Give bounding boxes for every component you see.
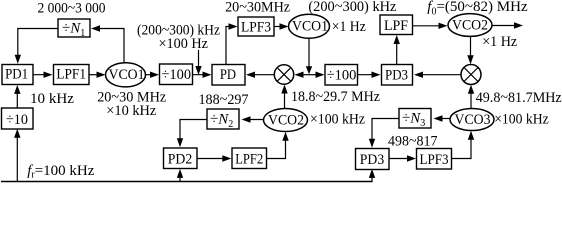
svg-text:×100 kHz: ×100 kHz <box>310 112 365 128</box>
svg-text:×100 kHz: ×100 kHz <box>494 112 549 128</box>
wire LPF1 to VCO1 <box>89 72 106 78</box>
svg-text:LPF2: LPF2 <box>235 152 263 168</box>
oscillator VCO3 <box>450 109 494 131</box>
wire PD1 to LPF1 <box>33 72 53 78</box>
block PD3 main <box>382 65 413 86</box>
block LPF2 <box>232 148 267 169</box>
svg-text:(200~300) kHz: (200~300) kHz <box>308 0 396 15</box>
wire PD2 to LPF2 <box>197 155 231 161</box>
wire junction to divider 100 second <box>309 72 325 78</box>
wire VCO3 up to mixer2 <box>468 85 474 109</box>
reference rail <box>1 181 373 183</box>
wire VCO2 output <box>492 22 523 28</box>
svg-text:10 kHz: 10 kHz <box>30 91 74 107</box>
svg-text:498~817: 498~817 <box>388 133 438 149</box>
svg-text:VCO2: VCO2 <box>268 113 304 129</box>
divider N2 <box>207 109 239 130</box>
wire VCO1 to divider 100 <box>146 72 160 78</box>
svg-text:÷100: ÷100 <box>327 67 357 83</box>
mixer 1 <box>274 65 293 84</box>
wire PD3b to LPF3b <box>389 155 416 161</box>
wire LPF3 to VCO1 top <box>274 23 289 29</box>
wire divider N1 to PD1 <box>15 29 58 64</box>
divider 100 first <box>160 64 193 85</box>
block LPF <box>380 15 413 35</box>
divider 10 <box>2 108 34 129</box>
svg-text:PD1: PD1 <box>5 67 28 83</box>
svg-text:÷100: ÷100 <box>162 67 192 83</box>
wire VCO2b up to mixer1 <box>281 85 287 109</box>
wire LPF3b to VCO3 <box>452 131 475 159</box>
block PD <box>212 65 245 86</box>
svg-text:×1 Hz: ×1 Hz <box>482 34 517 50</box>
oscillator VCO1 <box>106 63 146 87</box>
svg-text:2 000~3 000: 2 000~3 000 <box>38 0 106 16</box>
wire divider 100 to PD <box>193 72 212 78</box>
wire rail to PD2 <box>177 169 183 182</box>
wire LPF to VCO2 top <box>413 23 448 29</box>
divider N3 <box>399 109 431 130</box>
wire divider100 to PD3 <box>358 72 381 78</box>
svg-text:×1 Hz: ×1 Hz <box>332 19 366 35</box>
svg-text:PD2: PD2 <box>168 152 193 168</box>
svg-text:×100 Hz: ×100 Hz <box>159 36 209 52</box>
wire PD3 up to LPF <box>394 35 400 64</box>
mixer 2 <box>461 65 481 85</box>
block PD2 <box>164 148 198 169</box>
block PD3 bottom <box>356 149 390 170</box>
svg-text:PD: PD <box>220 67 236 83</box>
wire VCO1 top down junction <box>306 38 312 74</box>
wire divider 10 to PD1 <box>14 85 20 108</box>
svg-text:18.8~29.7 MHz: 18.8~29.7 MHz <box>291 89 380 105</box>
svg-text:VCO3: VCO3 <box>455 112 491 128</box>
svg-text:LPF1: LPF1 <box>56 67 86 83</box>
svg-text:188~297: 188~297 <box>199 92 249 108</box>
block LPF1 <box>54 65 90 85</box>
wire LPF2 to VCO2b <box>267 132 289 159</box>
svg-text:VCO1: VCO1 <box>292 18 328 34</box>
wire VCO2b to divider N2 <box>242 116 264 122</box>
svg-text:×10 kHz: ×10 kHz <box>106 103 156 119</box>
wire mixer1 to PD <box>246 72 274 78</box>
wire junction to mixer1 <box>295 72 310 78</box>
wire rail to PD3b <box>369 169 375 182</box>
block PD1 <box>2 65 33 85</box>
oscillator VCO2 bottom <box>264 109 308 132</box>
wire divider N2 to PD2 <box>177 120 207 148</box>
wire divider N3 to PD3b <box>369 119 399 148</box>
svg-text:20~30MHz: 20~30MHz <box>225 0 290 16</box>
svg-text:VCO2: VCO2 <box>452 18 488 34</box>
wire rail to divider 10 <box>14 129 20 182</box>
svg-text:PD3: PD3 <box>385 67 408 83</box>
wire PD up to LPF3 top <box>226 23 238 64</box>
block LPF3 bottom <box>417 149 452 170</box>
block LPF3 top <box>238 17 274 36</box>
wire mixer2 to PD3 <box>414 72 461 78</box>
wire VCO2 down to mixer2 <box>467 36 473 64</box>
annotation arrow to wire <box>195 50 201 75</box>
oscillator VCO1 top <box>289 14 330 38</box>
svg-text:LPF: LPF <box>384 18 408 34</box>
wire VCO3 to divider N3 <box>434 115 451 121</box>
svg-text:fr=100 kHz: fr=100 kHz <box>27 163 95 181</box>
oscillator VCO2 top <box>448 14 492 37</box>
svg-text:VCO1: VCO1 <box>109 67 145 83</box>
svg-text:PD3: PD3 <box>360 152 384 168</box>
wire VCO1 to divider N1 <box>91 25 124 63</box>
svg-text:LPF3: LPF3 <box>241 20 271 36</box>
divider N1 <box>58 19 90 39</box>
svg-text:49.8~81.7MHz: 49.8~81.7MHz <box>476 90 562 106</box>
divider 100 second <box>325 65 358 86</box>
svg-text:LPF3: LPF3 <box>420 152 449 168</box>
svg-text:÷10: ÷10 <box>6 112 28 128</box>
